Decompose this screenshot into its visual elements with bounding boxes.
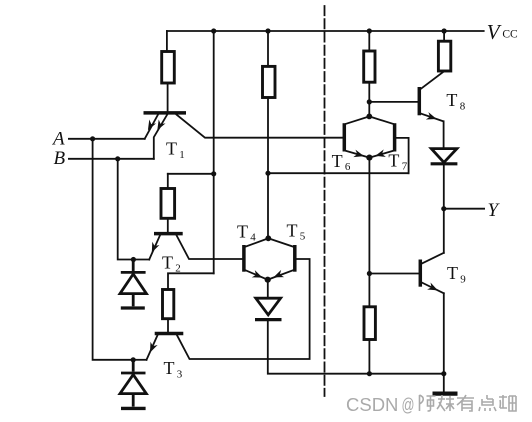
svg-text:9: 9 — [460, 273, 466, 285]
svg-text:T: T — [162, 253, 173, 273]
svg-text:CC: CC — [502, 29, 518, 41]
svg-text:7: 7 — [402, 160, 408, 172]
svg-text:T: T — [446, 90, 457, 110]
svg-text:8: 8 — [460, 100, 466, 112]
svg-text:B: B — [54, 148, 66, 169]
svg-text:1: 1 — [179, 149, 185, 161]
svg-text:T: T — [388, 150, 399, 170]
svg-text:3: 3 — [177, 368, 183, 380]
svg-text:T: T — [332, 151, 343, 171]
svg-text:T: T — [287, 221, 298, 241]
svg-text:4: 4 — [250, 231, 256, 243]
svg-text:T: T — [447, 263, 458, 283]
svg-text:T: T — [237, 221, 248, 241]
svg-text:A: A — [51, 128, 65, 149]
svg-text:T: T — [164, 358, 175, 378]
svg-text:2: 2 — [175, 263, 181, 275]
svg-text:Y: Y — [488, 200, 501, 221]
svg-text:T: T — [166, 138, 177, 158]
svg-text:6: 6 — [345, 161, 351, 173]
svg-text:CSDN: CSDN — [346, 394, 398, 415]
svg-text:@: @ — [402, 395, 415, 415]
svg-text:V: V — [487, 20, 502, 44]
svg-text:5: 5 — [300, 231, 306, 243]
